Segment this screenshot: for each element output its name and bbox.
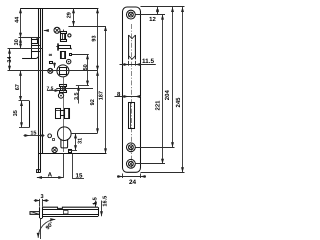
dim 24 — [122, 174, 124, 179]
svg-text:15: 15 — [30, 130, 36, 136]
wall leader arrow — [44, 30, 49, 32]
left view: case top edge — [20, 8, 98, 10]
dim 12 line — [157, 7, 159, 15]
section inner block — [64, 211, 69, 214]
ext y88.7 barrel midline — [56, 88, 93, 90]
svg-text:3: 3 — [40, 194, 43, 200]
dim 15 bottom line — [73, 178, 85, 180]
follower guide part — [61, 52, 66, 59]
middle screw — [126, 143, 135, 152]
leader arrow to hub square — [54, 63, 56, 68]
spindle hub — [57, 65, 69, 77]
small circle right of latch — [68, 34, 71, 37]
ext y54.2 — [72, 54, 89, 56]
dim 187 line — [105, 26, 107, 153]
90 degree arc — [38, 219, 55, 238]
euro cylinder hole — [58, 127, 72, 141]
bottom screw ext — [135, 163, 165, 165]
faceplate centerline dashed — [131, 24, 133, 168]
dim 3 arrows — [34, 200, 40, 202]
screw S5 — [52, 147, 57, 152]
svg-text:8: 8 — [48, 53, 53, 56]
svg-text:16.5: 16.5 — [103, 196, 109, 207]
svg-text:204: 204 — [164, 90, 171, 101]
inner slot vertical — [29, 101, 31, 127]
vertical centerline — [63, 77, 65, 152]
section faceplate strip — [39, 207, 41, 218]
dim 31 line — [75, 133, 77, 150]
svg-text:24: 24 — [129, 179, 137, 186]
dim 15 left line — [24, 135, 30, 137]
small square right of guide — [70, 54, 72, 56]
svg-text:3.5: 3.5 — [74, 92, 80, 100]
dim 44 line — [20, 8, 22, 38]
svg-text:93: 93 — [92, 35, 98, 41]
svg-text:31: 31 — [77, 138, 83, 144]
svg-text:50: 50 — [83, 64, 89, 70]
tick y48.6 — [8, 48, 43, 50]
middle screw ext — [135, 147, 174, 149]
dim 204 line — [172, 7, 174, 147]
svg-text:245: 245 — [175, 97, 182, 108]
svg-text:A: A — [48, 171, 53, 178]
cylinder center ext y133.4 — [71, 133, 98, 135]
svg-text:67: 67 — [15, 84, 21, 90]
dim 67 line — [20, 71, 22, 101]
deadbolt assembly — [56, 109, 61, 119]
screw S1 — [54, 27, 60, 33]
faceplate bottom foot — [37, 170, 41, 173]
svg-text:44: 44 — [14, 16, 20, 23]
dim 29 line — [73, 8, 75, 26]
bottom screw — [126, 159, 135, 168]
screw S3 — [48, 68, 53, 73]
svg-text:30: 30 — [14, 39, 20, 45]
svg-text:15: 15 — [76, 172, 83, 179]
tick y101 — [19, 100, 30, 102]
dim 8 line — [115, 96, 142, 98]
small square part lower right — [69, 150, 72, 153]
dim 3.5 line — [78, 86, 80, 104]
top screw — [126, 10, 135, 19]
tick y37.8 — [19, 37, 41, 39]
90 degree leg — [40, 218, 42, 239]
svg-text:187: 187 — [99, 91, 105, 100]
dim 245 line — [182, 7, 184, 172]
dim 93 line — [97, 8, 99, 70]
latch cutout — [129, 35, 136, 59]
bottom edge ext — [141, 172, 185, 174]
dim 7.5 line — [47, 90, 60, 92]
dim 11.5 line — [120, 64, 156, 66]
faceplate outline — [123, 7, 141, 172]
barrel below hub — [60, 85, 67, 87]
svg-text:35: 35 — [13, 110, 19, 116]
section case lower wall — [42, 214, 98, 216]
ext y150.3 — [69, 150, 77, 152]
square-8 symbol — [50, 62, 53, 64]
top screw center ext — [135, 14, 165, 16]
svg-text:92: 92 — [90, 99, 96, 105]
svg-text:7.5: 7.5 — [47, 86, 54, 92]
dim 92 line — [97, 71, 99, 134]
svg-text:34: 34 — [7, 56, 13, 63]
dim A line — [37, 177, 63, 179]
dim 35 line — [21, 101, 23, 127]
hub center line y70.7 — [8, 70, 98, 72]
dim 221 line — [162, 15, 164, 164]
faceplate edge-on double lines — [38, 8, 40, 172]
svg-text:1.5: 1.5 — [93, 197, 99, 205]
left view dimension texts — [7, 12, 105, 179]
dim 16.5 line — [101, 201, 103, 217]
svg-text:221: 221 — [155, 100, 162, 111]
svg-text:29: 29 — [66, 12, 72, 18]
dim 15 bottom vertical ext — [72, 153, 74, 179]
dim 34 line — [9, 49, 11, 71]
ext y85.6 — [76, 85, 89, 87]
dim 50 line — [87, 54, 89, 85]
A centerline ext — [63, 153, 65, 178]
svg-text:11.5: 11.5 — [142, 58, 155, 65]
dim 30 line — [20, 38, 22, 49]
latch spring lever — [56, 43, 58, 50]
deadbolt cutout — [129, 103, 135, 129]
top edge ext line — [141, 6, 185, 8]
dim 1.5 leader — [95, 201, 97, 208]
svg-text:12: 12 — [149, 16, 156, 23]
section case top wall — [42, 207, 98, 208]
latch barrel — [61, 32, 67, 34]
screw S2 — [67, 59, 71, 63]
ladder notch structure — [21, 37, 37, 39]
latch center ext line — [68, 26, 105, 28]
case front wall — [42, 8, 44, 153]
tick y127.4 — [19, 127, 30, 129]
tiny square near O — [53, 139, 55, 141]
screw S4 — [58, 93, 63, 98]
svg-text:O: O — [47, 133, 52, 140]
section bent lip — [30, 212, 40, 215]
case bottom edge — [38, 153, 106, 155]
